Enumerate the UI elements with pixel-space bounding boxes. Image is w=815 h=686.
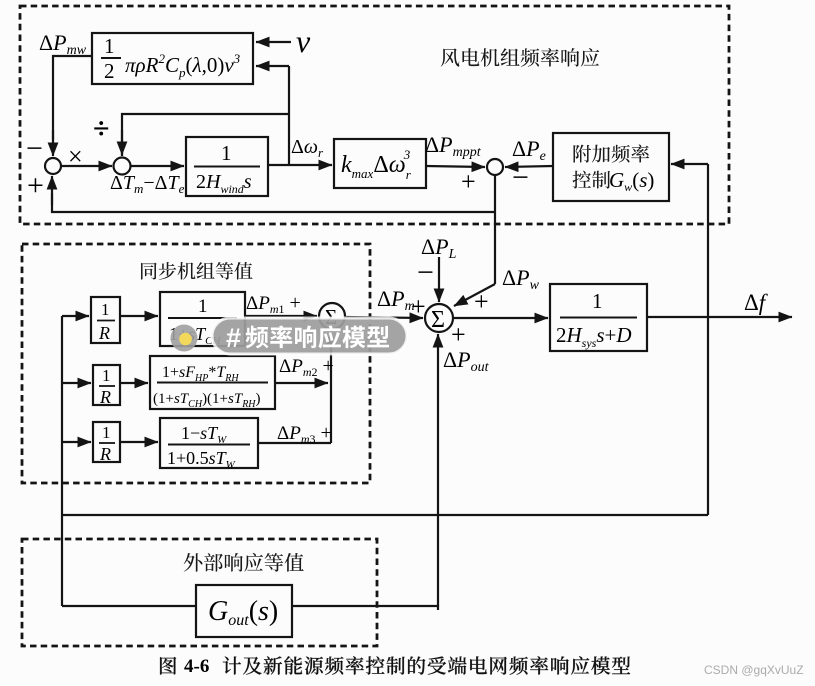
wire S3 down to dPw corner xyxy=(494,175,496,284)
wire B4 output to S3 xyxy=(505,166,553,167)
summing junction S1 xyxy=(45,158,61,174)
svg-text:R: R xyxy=(99,387,111,407)
dashed box: wind turbine frequency response region xyxy=(20,6,729,224)
wire S4 to S5 dPm xyxy=(345,317,423,318)
cjk label: external response equivalent xyxy=(184,553,304,572)
wire left feedback vertical xyxy=(61,316,63,606)
block B12 external response Gout(s) xyxy=(196,585,292,637)
svg-text:1: 1 xyxy=(101,300,110,319)
wire omega_r branch to divider xyxy=(122,114,289,156)
wire S2 to B2 xyxy=(131,165,185,167)
wire df feedback vertical xyxy=(707,164,709,515)
block B10 hydro turbine (1-sTw)/(1+0.5sTw) xyxy=(160,418,258,468)
wire omega_r vertical riser xyxy=(288,66,290,165)
svg-text:ΔPm2 +: ΔPm2 + xyxy=(279,355,334,379)
watermark avatar dot xyxy=(179,333,192,346)
cjk label: synchronous unit equivalent xyxy=(141,262,253,280)
svg-text:ΔPmppt: ΔPmppt xyxy=(425,132,482,160)
svg-text:ΔPmw: ΔPmw xyxy=(39,30,87,58)
cjk label: control line2 xyxy=(573,171,611,189)
wire arrow into divider circle S2 top xyxy=(121,130,123,155)
svg-text:Δωr: Δωr xyxy=(291,136,324,160)
wire S5 to B11 xyxy=(453,317,548,319)
block B5 droop 1/R row1 xyxy=(91,297,120,343)
wire B9 to B10 xyxy=(120,441,158,443)
svg-text:−: − xyxy=(26,132,43,165)
svg-text:#: # xyxy=(226,323,241,353)
watermark avatar circle xyxy=(171,325,198,352)
wire omega_r feedback into B1 right xyxy=(256,65,289,67)
svg-text:ΔPm3 +: ΔPm3 + xyxy=(277,422,332,446)
wire dPw diagonal into S5 xyxy=(454,284,495,306)
wire dPmw from B1 to S1 xyxy=(53,56,92,140)
cjk label: supplementary frequency line1 xyxy=(574,144,650,162)
wire into B9 xyxy=(62,441,91,443)
wire riser dPm2/dPm3 into S4 bottom xyxy=(330,331,332,443)
svg-text:ΔPm: ΔPm xyxy=(377,286,415,314)
svg-text:2: 2 xyxy=(104,59,115,83)
wire B10 output to riser xyxy=(258,442,331,444)
block B2 1/(2*Hwind*s) xyxy=(186,137,268,196)
wire S1 to S2 xyxy=(61,165,112,167)
svg-text:4-6: 4-6 xyxy=(184,656,209,677)
block B1 aerodynamic power 1/2*pi*rho*R^2*Cp(lambda,0)v^3 xyxy=(92,33,253,84)
watermark cjk text xyxy=(246,325,389,348)
svg-text:+: + xyxy=(461,167,476,196)
block B11 system inertia 1/(2*Hsys*s+D) xyxy=(550,284,647,351)
svg-text:Gw(s): Gw(s) xyxy=(609,168,654,194)
svg-text:−: − xyxy=(417,256,434,289)
svg-text:1: 1 xyxy=(104,34,115,58)
summing junction S5 main sigma xyxy=(425,304,453,332)
wire dPL into S5 top xyxy=(438,257,440,302)
svg-text:+: + xyxy=(474,287,489,316)
summing junction S2 divider xyxy=(114,158,131,175)
svg-text:1: 1 xyxy=(102,366,111,385)
svg-text:ΔPm1 +: ΔPm1 + xyxy=(246,292,301,316)
svg-text:kmaxΔωr3: kmaxΔωr3 xyxy=(341,147,412,182)
block B4 supplementary frequency control Gw(s) xyxy=(553,133,669,201)
wire feedback into B4 right xyxy=(671,163,708,165)
svg-text:÷: ÷ xyxy=(93,112,109,145)
svg-text:−: − xyxy=(512,161,529,194)
dashed box: external response equivalent region xyxy=(22,539,377,646)
svg-text:R: R xyxy=(99,444,111,464)
svg-text:ΔTm−ΔTe: ΔTm−ΔTe xyxy=(110,172,185,196)
svg-text:+: + xyxy=(411,292,426,321)
svg-text:×: × xyxy=(68,142,83,171)
svg-text:1: 1 xyxy=(221,141,232,165)
summing junction S3 xyxy=(487,159,503,175)
wire B5 to B6 xyxy=(120,315,158,317)
wire B7 to B8 xyxy=(120,382,148,384)
svg-text:1: 1 xyxy=(102,423,111,442)
dashed box: synchronous unit equivalent region xyxy=(22,244,370,483)
wire into B7 xyxy=(62,382,91,384)
cjk label: wind turbine group frequency response xyxy=(441,48,600,67)
svg-text:ΔPout: ΔPout xyxy=(443,347,490,375)
block B9 droop 1/R row3 xyxy=(93,422,120,462)
block B8 reheat turbine (1+sFhp*Trh)/((1+sTch)(1+sTrh)) xyxy=(150,356,275,409)
svg-text:+: + xyxy=(27,169,44,202)
block B6 governor 1/(1+sTch) xyxy=(160,292,245,346)
svg-text:1: 1 xyxy=(198,296,208,317)
svg-text:R: R xyxy=(98,323,110,343)
svg-text:v: v xyxy=(296,23,311,59)
wire B3 to S3 xyxy=(426,166,485,167)
wire dPout riser into S5 bottom xyxy=(437,334,439,606)
wire B2 to B3 xyxy=(268,164,332,166)
summing junction S4 sync sigma xyxy=(319,303,345,329)
svg-text:CSDN @gqXvUuZ: CSDN @gqXvUuZ xyxy=(704,663,804,677)
svg-text:ΔPw: ΔPw xyxy=(502,265,540,293)
watermark pill xyxy=(212,318,407,354)
wire v input into B1 xyxy=(256,41,291,43)
wire into Gout xyxy=(62,605,196,607)
svg-text:Δf: Δf xyxy=(744,290,769,315)
wire B8 output to riser xyxy=(275,382,328,384)
svg-text:+: + xyxy=(451,320,466,349)
block B3 kmax*dwr^3 xyxy=(334,139,426,188)
svg-text:1+0.5sTW: 1+0.5sTW xyxy=(167,448,236,471)
wire inner feedback Pe to S1 bottom xyxy=(52,193,495,212)
svg-text:Σ: Σ xyxy=(431,307,445,333)
wire Gout output to riser xyxy=(292,606,438,610)
block B7 droop 1/R row2 xyxy=(93,365,120,405)
wire long bottom feedback xyxy=(62,514,708,516)
wire into B5 xyxy=(62,315,89,317)
caption figure 4-6 cjk xyxy=(160,657,176,675)
svg-text:1: 1 xyxy=(592,289,603,313)
svg-text:ΔPe: ΔPe xyxy=(512,136,546,164)
wire arrow into S1 bottom xyxy=(51,176,53,205)
wire arrow into S1 top xyxy=(52,130,54,156)
wire B6 to S4 xyxy=(245,315,317,317)
wire B11 output df xyxy=(647,316,792,318)
